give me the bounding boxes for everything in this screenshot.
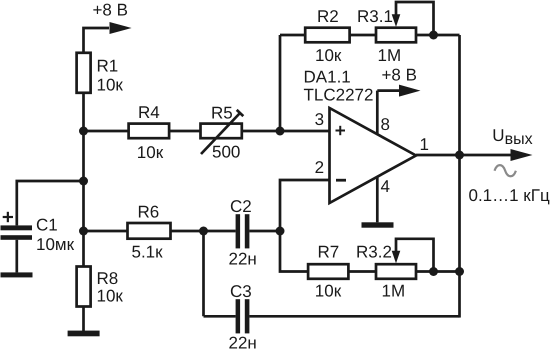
wire node C down to C3 [202,231,205,316]
svg-text:R1: R1 [97,57,119,76]
svg-text:+8 В: +8 В [93,1,128,20]
resistor R8 [77,267,91,307]
wire node A down to C1 tap [82,131,85,181]
junction output node (459.5,155) [455,151,464,160]
svg-text:10к: 10к [137,143,164,162]
svg-text:10к: 10к [315,281,342,300]
wiper arrow (R3.2) [392,251,401,264]
wire C1 tap down to R6 tap [82,181,85,231]
power arrow +8V (top left) [110,22,132,34]
wire C1 branch [17,181,84,225]
sine symbol [495,165,516,176]
plus input marker [336,126,346,135]
wire pin 4 [376,177,379,223]
svg-text:R4: R4 [138,103,160,122]
wire node A to R4 [84,130,129,133]
svg-text:22н: 22н [229,250,257,269]
wire R6 tap to R6 [84,230,128,233]
wire R6 tap down to R8 [82,231,85,267]
resistor R2 [305,28,349,43]
polarity + sign (C1) [3,212,13,222]
wire R5 to node B [242,130,280,133]
trimmer end bar (R5) [237,110,244,116]
svg-text:10к: 10к [97,287,124,306]
svg-text:R8: R8 [97,269,119,288]
wire R2 to R3.1 [350,34,376,37]
wire output [460,154,511,157]
capacitor C2 [236,214,250,248]
svg-text:DA1.1: DA1.1 [304,68,351,87]
wire wiper R3.1 feedback [396,2,434,35]
svg-text:R5: R5 [211,104,233,123]
junction R6 tap (83,231) [79,227,88,236]
resistor R5 (trimmer) [201,124,242,139]
wiper arrow (R3.1) [392,14,401,27]
svg-text:10к: 10к [315,46,342,65]
svg-text:R2: R2 [317,7,339,26]
svg-text:C3: C3 [230,282,252,301]
wire R3.1 to junction [416,34,434,37]
svg-text:500: 500 [212,143,240,162]
svg-text:TLC2272: TLC2272 [304,85,374,104]
capacitor C3 [236,299,250,333]
junction node B (280,131) [276,127,285,136]
svg-text:1: 1 [420,135,429,154]
svg-text:22н: 22н [229,334,257,350]
ground (below C1) [1,272,33,277]
power arrow +8V (pin 8) [399,85,421,97]
wire junction to right rail [434,34,460,37]
wire right rail middle [458,155,461,272]
junction node A (83,131) [79,127,88,136]
resistor R1 [77,53,91,93]
wire R4 to R5 [169,130,200,133]
wire to C3 left [204,315,236,318]
svg-text:1M: 1M [382,281,406,300]
svg-text:R6: R6 [138,203,160,222]
resistor R7 [308,264,348,279]
wire right rail lower [458,272,461,318]
svg-text:4: 4 [381,177,390,196]
svg-text:1M: 1M [378,46,402,65]
wire C1 to ground [15,240,18,273]
svg-text:5.1к: 5.1к [132,243,164,262]
resistor R4 [129,124,170,139]
capacitor C1 [1,225,33,239]
wire node D down to R7 [280,231,308,272]
svg-text:R7: R7 [318,242,340,261]
trimmer stroke (R5) [201,113,240,154]
wire pin 8 supply stub [377,89,399,92]
wire pin 3 lead [280,130,330,133]
wire wiper R3.2 feedback [396,239,434,272]
output arrow [511,149,533,161]
wire junction to right rail [434,270,460,273]
junction R3.1 wiper node (433.5,35) [429,31,438,40]
svg-text:3: 3 [315,110,324,129]
wire right rail upper [458,35,461,155]
svg-text:R3.2: R3.2 [356,242,392,261]
wire C2 to node D [249,230,280,233]
potentiometer R3.2 [376,264,416,279]
wire R6 to node C [171,230,204,233]
wire C3 to right rail (bottom) [249,315,459,318]
minus input marker [336,179,346,182]
wire pin 1 output [416,154,460,157]
resistor R6 [128,223,171,239]
wire R3.2 to junction [416,270,434,273]
svg-text:8: 8 [381,115,390,134]
svg-text:0.1…1 кГц: 0.1…1 кГц [469,186,550,205]
wire node C to C2 [204,230,236,233]
wire +8V supply to R1 [84,28,110,53]
junction C1 tap (83,181) [79,177,88,186]
potentiometer R3.1 [376,28,416,43]
wire R7 to R3.2 [348,270,376,273]
svg-text:C1: C1 [36,216,58,235]
wire pin 8 [376,91,379,135]
junction R3.2 wiper node (433.5,271.5) [429,267,438,276]
junction node D (280,231) [276,227,285,236]
svg-text:2: 2 [315,158,324,177]
wire R8 bottom to ground [82,307,85,332]
svg-text:C2: C2 [230,197,252,216]
ground (below R8) [68,331,100,337]
svg-text:R3.1: R3.1 [357,7,393,26]
svg-text:+8 В: +8 В [382,65,417,84]
wire to R2 [280,34,305,37]
wire R1 bottom to node A [82,93,85,131]
svg-text:10к: 10к [97,76,124,95]
junction right rail (459.5,271.5) [455,267,464,276]
op-amp U1 DA1.1 [330,108,417,203]
wire pin 2 lead [280,180,330,231]
wire node B up to R2 [279,35,282,131]
svg-text:10мк: 10мк [36,235,75,254]
junction node C (203.5,231) [199,227,208,236]
ground (pin 4) [362,222,394,227]
